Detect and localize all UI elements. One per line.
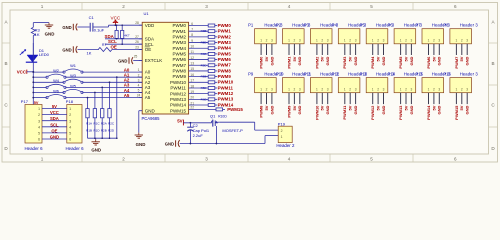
svg-text:GND: GND xyxy=(50,135,59,140)
svg-text:2: 2 xyxy=(405,39,407,43)
svg-text:R10D: R10D xyxy=(218,114,227,118)
svg-text:1: 1 xyxy=(428,39,430,43)
svg-text:PWM15: PWM15 xyxy=(454,105,459,120)
svg-text:PWM14: PWM14 xyxy=(170,103,187,108)
svg-text:10: 10 xyxy=(190,45,194,49)
svg-text:2: 2 xyxy=(122,157,125,162)
svg-text:R1B: R1B xyxy=(86,129,92,133)
resistor row PWM5 xyxy=(189,53,209,55)
svg-text:P9: P9 xyxy=(248,71,254,76)
connector P15 Header 3 xyxy=(422,78,444,93)
wire 5V rail xyxy=(183,122,211,124)
svg-text:12: 12 xyxy=(190,56,194,60)
svg-text:23: 23 xyxy=(135,46,139,50)
svg-text:15: 15 xyxy=(190,67,194,71)
svg-text:3: 3 xyxy=(355,87,357,91)
svg-text:5V: 5V xyxy=(348,56,353,61)
resistor row PWM8 xyxy=(189,70,209,72)
svg-text:PWM2: PWM2 xyxy=(173,34,187,39)
svg-text:1: 1 xyxy=(288,87,290,91)
svg-text:6: 6 xyxy=(191,22,193,26)
svg-text:R2C: R2C xyxy=(108,122,115,126)
svg-text:R7: R7 xyxy=(102,43,106,47)
jumper W2 / net A1 xyxy=(33,76,47,78)
svg-text:PWM12: PWM12 xyxy=(170,91,187,96)
svg-text:B: B xyxy=(491,61,494,66)
svg-text:PWM10: PWM10 xyxy=(314,105,319,120)
svg-text:3: 3 xyxy=(38,119,40,123)
svg-text:A5: A5 xyxy=(145,95,151,100)
svg-text:5V: 5V xyxy=(52,104,57,109)
svg-text:PWM7: PWM7 xyxy=(173,63,187,68)
svg-text:1: 1 xyxy=(41,157,44,162)
svg-text:Q1: Q1 xyxy=(210,113,216,118)
svg-text:P11: P11 xyxy=(304,71,312,76)
svg-text:P13: P13 xyxy=(360,71,368,76)
svg-text:3: 3 xyxy=(411,87,413,91)
svg-text:1: 1 xyxy=(456,87,458,91)
connector P3 Header 3 xyxy=(310,29,332,44)
svg-text:PWM8: PWM8 xyxy=(259,105,264,118)
svg-text:P5: P5 xyxy=(360,22,366,27)
svg-text:P14: P14 xyxy=(388,71,396,76)
svg-text:P10: P10 xyxy=(276,71,284,76)
svg-text:SDA: SDA xyxy=(145,36,154,41)
connector P16 Header 3 xyxy=(450,78,472,93)
junction C2 xyxy=(190,122,192,124)
connector P5 Header 3 xyxy=(366,29,388,44)
wires P17-P18 with net labels xyxy=(42,108,67,110)
svg-text:PWM2: PWM2 xyxy=(218,34,232,39)
svg-text:PWM5: PWM5 xyxy=(173,52,187,57)
svg-text:2: 2 xyxy=(461,39,463,43)
svg-text:5V: 5V xyxy=(292,105,297,110)
svg-text:P12: P12 xyxy=(332,71,340,76)
svg-text:1: 1 xyxy=(288,39,290,43)
svg-text:PCA9685: PCA9685 xyxy=(142,116,161,121)
svg-text:P15: P15 xyxy=(416,71,424,76)
svg-text:27: 27 xyxy=(135,35,139,39)
connector P11 Header 3 xyxy=(310,78,332,93)
connector P19 Header 2 xyxy=(278,126,292,142)
svg-text:VCC: VCC xyxy=(50,110,59,115)
svg-text:R1C: R1C xyxy=(93,122,100,126)
svg-text:GND: GND xyxy=(118,59,127,64)
svg-text:R2B: R2B xyxy=(101,129,107,133)
svg-text:W1: W1 xyxy=(70,63,76,68)
svg-text:GND: GND xyxy=(465,105,470,114)
svg-text:VCC: VCC xyxy=(111,16,121,21)
svg-text:W3: W3 xyxy=(70,73,76,78)
svg-text:3: 3 xyxy=(69,119,71,123)
svg-text:5V: 5V xyxy=(320,105,325,110)
svg-text:PWM11: PWM11 xyxy=(218,85,234,90)
svg-text:1: 1 xyxy=(344,87,346,91)
svg-text:PWM3: PWM3 xyxy=(342,56,347,69)
svg-text:PWM10: PWM10 xyxy=(170,80,187,85)
svg-text:1: 1 xyxy=(456,39,458,43)
svg-text:P17: P17 xyxy=(21,99,29,104)
svg-text:PWM1: PWM1 xyxy=(218,29,232,34)
svg-text:PWM0: PWM0 xyxy=(218,23,232,28)
svg-text:PWM12: PWM12 xyxy=(370,105,375,120)
svg-text:9: 9 xyxy=(191,39,193,43)
wire GND to R7 xyxy=(78,49,99,51)
IC GND wire xyxy=(138,111,140,133)
svg-text:P16: P16 xyxy=(443,71,451,76)
wire gnd rail xyxy=(180,143,265,145)
svg-text:R8B: R8B xyxy=(201,29,207,33)
svg-text:1: 1 xyxy=(344,39,346,43)
svg-text:1: 1 xyxy=(428,87,430,91)
connector P2 Header 3 xyxy=(283,29,305,44)
svg-text:1: 1 xyxy=(281,135,283,139)
svg-text:PWM12: PWM12 xyxy=(218,91,234,96)
resistor row PWM12 xyxy=(189,93,209,95)
svg-text:5V: 5V xyxy=(403,105,408,110)
svg-text:2: 2 xyxy=(461,87,463,91)
svg-text:GND: GND xyxy=(145,108,156,113)
svg-text:1: 1 xyxy=(138,68,140,72)
svg-text:GND: GND xyxy=(62,25,71,30)
svg-text:PWM15: PWM15 xyxy=(227,107,243,112)
resistor R7 1K xyxy=(98,48,112,52)
svg-text:3: 3 xyxy=(438,87,440,91)
svg-text:1: 1 xyxy=(260,87,262,91)
svg-text:5V: 5V xyxy=(376,56,381,61)
svg-text:GND: GND xyxy=(45,31,55,36)
wire R3 to D1 xyxy=(32,36,34,55)
svg-text:GND: GND xyxy=(465,56,470,65)
svg-text:5V: 5V xyxy=(459,105,464,110)
svg-text:R9B: R9B xyxy=(201,52,207,56)
resistor row PWM3 xyxy=(189,42,209,44)
svg-text:PWM5: PWM5 xyxy=(218,51,232,56)
svg-text:3: 3 xyxy=(411,39,413,43)
svg-text:PWM15: PWM15 xyxy=(170,108,187,113)
op IC U1 PCA9685 body+left pins xyxy=(142,22,188,114)
svg-text:1: 1 xyxy=(316,39,318,43)
resistor row PWM11 xyxy=(189,87,209,89)
svg-text:19: 19 xyxy=(190,90,194,94)
wire SCL xyxy=(105,43,142,45)
svg-text:PWM11: PWM11 xyxy=(170,86,186,91)
svg-text:6: 6 xyxy=(38,138,40,142)
svg-text:2: 2 xyxy=(377,39,379,43)
svg-text:PWM3: PWM3 xyxy=(173,40,187,45)
resistor row PWM13 xyxy=(189,98,209,100)
resistor row PWM1 xyxy=(189,30,209,32)
connector P4 Header 3 xyxy=(338,29,360,44)
svg-text:2: 2 xyxy=(433,87,435,91)
svg-text:5V: 5V xyxy=(177,119,182,124)
svg-text:5: 5 xyxy=(38,132,40,136)
svg-text:GND: GND xyxy=(325,56,330,65)
resistors R4 R5 pullups xyxy=(116,25,118,30)
svg-text:2: 2 xyxy=(349,87,351,91)
svg-text:W4: W4 xyxy=(53,78,60,83)
svg-text:3: 3 xyxy=(355,39,357,43)
svg-text:3: 3 xyxy=(466,87,468,91)
svg-text:P6: P6 xyxy=(388,22,394,27)
svg-text:5: 5 xyxy=(138,89,140,93)
svg-text:4: 4 xyxy=(138,84,140,88)
svg-text:GND: GND xyxy=(269,105,274,114)
svg-text:P18: P18 xyxy=(66,99,74,104)
svg-text:W5: W5 xyxy=(70,83,76,88)
svg-text:U1: U1 xyxy=(144,11,150,16)
svg-text:5V: 5V xyxy=(459,56,464,61)
svg-text:Header 3: Header 3 xyxy=(460,71,479,76)
svg-text:2: 2 xyxy=(69,113,71,117)
connector P12 Header 3 xyxy=(338,78,360,93)
LED D1 xyxy=(27,55,38,62)
svg-text:5V: 5V xyxy=(376,105,381,110)
ground GND (IC) xyxy=(138,133,140,135)
svg-text:1: 1 xyxy=(41,4,44,9)
svg-text:1: 1 xyxy=(260,39,262,43)
svg-text:PWM8: PWM8 xyxy=(218,68,232,73)
ground GND (top-left) xyxy=(48,23,50,25)
jumper W4 / net A3 xyxy=(33,86,47,88)
svg-text:PWM4: PWM4 xyxy=(173,46,187,51)
svg-text:PWM13: PWM13 xyxy=(170,97,187,102)
svg-text:SCL: SCL xyxy=(50,122,59,127)
svg-text:26: 26 xyxy=(135,40,139,44)
svg-text:0.1uF: 0.1uF xyxy=(94,28,105,33)
svg-text:GND: GND xyxy=(297,56,302,65)
svg-text:3: 3 xyxy=(271,87,273,91)
connector P18 Header 6 xyxy=(67,105,82,144)
svg-text:3: 3 xyxy=(438,39,440,43)
wire D1 to P17 (VCC rail) xyxy=(32,43,34,105)
svg-text:GND: GND xyxy=(437,56,442,65)
svg-text:2: 2 xyxy=(405,87,407,91)
svg-text:2: 2 xyxy=(266,87,268,91)
capacitor C1 xyxy=(89,23,91,32)
svg-text:P1: P1 xyxy=(248,22,254,27)
svg-text:SCL: SCL xyxy=(145,42,154,47)
svg-text:4: 4 xyxy=(38,125,40,129)
svg-text:4K7: 4K7 xyxy=(124,34,130,38)
svg-text:1K: 1K xyxy=(87,51,92,56)
svg-text:R2D: R2D xyxy=(108,129,115,133)
resistor R3 xyxy=(31,27,35,35)
svg-text:P8: P8 xyxy=(443,22,449,27)
svg-text:5V: 5V xyxy=(292,56,297,61)
svg-text:6: 6 xyxy=(454,157,457,162)
svg-text:2: 2 xyxy=(281,129,283,133)
connector P8 Header 3 xyxy=(450,29,472,44)
svg-text:R1D: R1D xyxy=(93,129,100,133)
connector P6 Header 3 xyxy=(394,29,416,44)
svg-text:6: 6 xyxy=(69,138,71,142)
svg-text:GND: GND xyxy=(91,148,101,153)
svg-text:R5D: R5D xyxy=(201,86,208,90)
svg-text:5V: 5V xyxy=(264,56,269,61)
svg-text:P4: P4 xyxy=(332,22,338,27)
svg-text:22: 22 xyxy=(190,106,194,110)
sheet border frame xyxy=(0,0,500,167)
svg-text:R9D: R9D xyxy=(201,63,208,67)
svg-text:PWM3: PWM3 xyxy=(218,40,232,45)
svg-text:2: 2 xyxy=(38,113,40,117)
capacitor C2 xyxy=(189,123,191,127)
resistor row PWM2 xyxy=(189,36,209,38)
svg-text:Header 2: Header 2 xyxy=(276,143,295,148)
svg-text:6: 6 xyxy=(454,4,457,9)
svg-text:5V: 5V xyxy=(264,105,269,110)
wire C1 to VDD pin xyxy=(93,26,109,28)
svg-text:P19: P19 xyxy=(278,121,286,126)
jumper W1 / net A0 xyxy=(33,71,64,73)
svg-text:GND: GND xyxy=(136,142,146,147)
connector P7 Header 3 xyxy=(422,29,444,44)
svg-text:3: 3 xyxy=(271,39,273,43)
svg-text:PWM14: PWM14 xyxy=(426,105,431,120)
svg-text:PWM13: PWM13 xyxy=(398,105,403,120)
svg-text:2: 2 xyxy=(349,39,351,43)
resistor row PWM4 xyxy=(189,47,209,49)
svg-text:2: 2 xyxy=(294,87,296,91)
svg-text:PWM1: PWM1 xyxy=(173,29,187,34)
svg-text:P2: P2 xyxy=(276,22,282,27)
svg-text:PWM7: PWM7 xyxy=(454,56,459,69)
svg-text:Header 6: Header 6 xyxy=(65,146,84,151)
svg-text:GND: GND xyxy=(62,48,71,53)
svg-text:3: 3 xyxy=(327,39,329,43)
transistor Q1 MOSFET-P xyxy=(211,121,213,123)
svg-text:2: 2 xyxy=(138,73,140,77)
svg-text:PWM9: PWM9 xyxy=(173,74,187,79)
svg-text:20: 20 xyxy=(190,96,194,100)
svg-text:GND: GND xyxy=(325,105,330,114)
connector P1 Header 3 xyxy=(255,29,277,44)
svg-text:GND: GND xyxy=(297,105,302,114)
svg-text:2.2uF: 2.2uF xyxy=(193,133,204,138)
svg-text:R2A: R2A xyxy=(101,122,107,126)
svg-text:3: 3 xyxy=(299,39,301,43)
svg-text:LED0: LED0 xyxy=(39,52,50,57)
svg-text:13: 13 xyxy=(190,62,194,66)
svg-text:3: 3 xyxy=(466,39,468,43)
svg-text:2: 2 xyxy=(377,87,379,91)
svg-text:1: 1 xyxy=(372,87,374,91)
svg-text:GND: GND xyxy=(381,56,386,65)
svg-text:7: 7 xyxy=(191,27,193,31)
svg-text:PWM4: PWM4 xyxy=(218,46,232,51)
svg-text:PWM8: PWM8 xyxy=(173,69,187,74)
svg-text:R1A: R1A xyxy=(86,122,92,126)
svg-text:5V: 5V xyxy=(403,56,408,61)
svg-text:3: 3 xyxy=(299,87,301,91)
svg-text:Header 3: Header 3 xyxy=(460,22,479,27)
svg-text:R8D: R8D xyxy=(201,41,208,45)
resistor bank R1A-R2D with ground xyxy=(86,109,89,118)
svg-text:11: 11 xyxy=(191,50,195,54)
wire GND to C1 xyxy=(78,26,90,28)
resistor row PWM7 xyxy=(189,64,209,66)
svg-text:OE: OE xyxy=(110,45,116,50)
svg-text:GND: GND xyxy=(409,56,414,65)
svg-text:OE: OE xyxy=(145,47,152,52)
svg-text:R6B: R6B xyxy=(201,97,207,101)
svg-text:PWM1: PWM1 xyxy=(286,56,291,69)
wire EXTCLK xyxy=(133,60,142,62)
svg-text:GND: GND xyxy=(353,105,358,114)
junction VCC rail xyxy=(32,71,34,73)
svg-text:PWM0: PWM0 xyxy=(259,56,264,69)
svg-text:SCL: SCL xyxy=(108,39,117,44)
jumper W5 / net A4 xyxy=(33,92,64,94)
svg-text:PWM9: PWM9 xyxy=(218,74,232,79)
svg-text:3: 3 xyxy=(205,4,208,9)
svg-text:5V: 5V xyxy=(431,105,436,110)
jumper W6 / net A5 xyxy=(33,97,47,99)
svg-text:PWM0: PWM0 xyxy=(173,23,187,28)
svg-text:PWM2: PWM2 xyxy=(314,56,319,69)
jumper W3 / net A2 xyxy=(33,81,64,83)
svg-text:28: 28 xyxy=(135,21,139,25)
svg-text:VCC: VCC xyxy=(17,70,27,75)
svg-text:3: 3 xyxy=(138,78,140,82)
resistor row PWM9 xyxy=(189,76,209,78)
connector P17 Header 6 xyxy=(25,105,42,144)
svg-text:EXTCLK: EXTCLK xyxy=(145,58,163,63)
svg-text:PWM5: PWM5 xyxy=(398,56,403,69)
svg-text:SDA: SDA xyxy=(50,116,59,121)
svg-text:PWM6: PWM6 xyxy=(173,57,187,62)
svg-text:2: 2 xyxy=(433,39,435,43)
svg-text:8: 8 xyxy=(191,33,193,37)
svg-text:4: 4 xyxy=(69,125,71,129)
svg-text:B: B xyxy=(4,61,7,66)
svg-text:PWM13: PWM13 xyxy=(218,97,234,102)
svg-text:3: 3 xyxy=(327,87,329,91)
svg-text:Header 6: Header 6 xyxy=(24,146,43,151)
svg-text:1K: 1K xyxy=(35,32,40,37)
svg-text:1: 1 xyxy=(372,39,374,43)
svg-text:1: 1 xyxy=(316,87,318,91)
svg-text:2: 2 xyxy=(321,39,323,43)
svg-text:3: 3 xyxy=(383,87,385,91)
svg-text:MOSFET-P: MOSFET-P xyxy=(222,128,243,133)
svg-text:5: 5 xyxy=(69,132,71,136)
svg-text:PWM11: PWM11 xyxy=(342,105,347,120)
svg-text:P3: P3 xyxy=(304,22,310,27)
svg-text:P7: P7 xyxy=(416,22,422,27)
svg-text:4: 4 xyxy=(288,4,291,9)
svg-text:5: 5 xyxy=(370,4,373,9)
connector P10 Header 3 xyxy=(283,78,305,93)
svg-text:1: 1 xyxy=(400,87,402,91)
svg-text:2: 2 xyxy=(266,39,268,43)
svg-text:16: 16 xyxy=(190,73,194,77)
svg-text:W2: W2 xyxy=(53,68,59,73)
resistor row PWM0 xyxy=(189,25,209,27)
svg-text:3: 3 xyxy=(205,157,208,162)
svg-text:25: 25 xyxy=(134,55,138,59)
svg-text:SDA: SDA xyxy=(105,34,115,39)
svg-text:C1: C1 xyxy=(89,15,95,20)
svg-text:GND: GND xyxy=(165,142,174,147)
svg-text:3: 3 xyxy=(383,39,385,43)
connector P13 Header 3 xyxy=(366,78,388,93)
svg-text:VDD: VDD xyxy=(145,23,155,28)
svg-text:PWM10: PWM10 xyxy=(218,80,234,85)
wire drain to P19 pin2 xyxy=(220,121,255,123)
resistor row PWM10 xyxy=(189,81,209,83)
